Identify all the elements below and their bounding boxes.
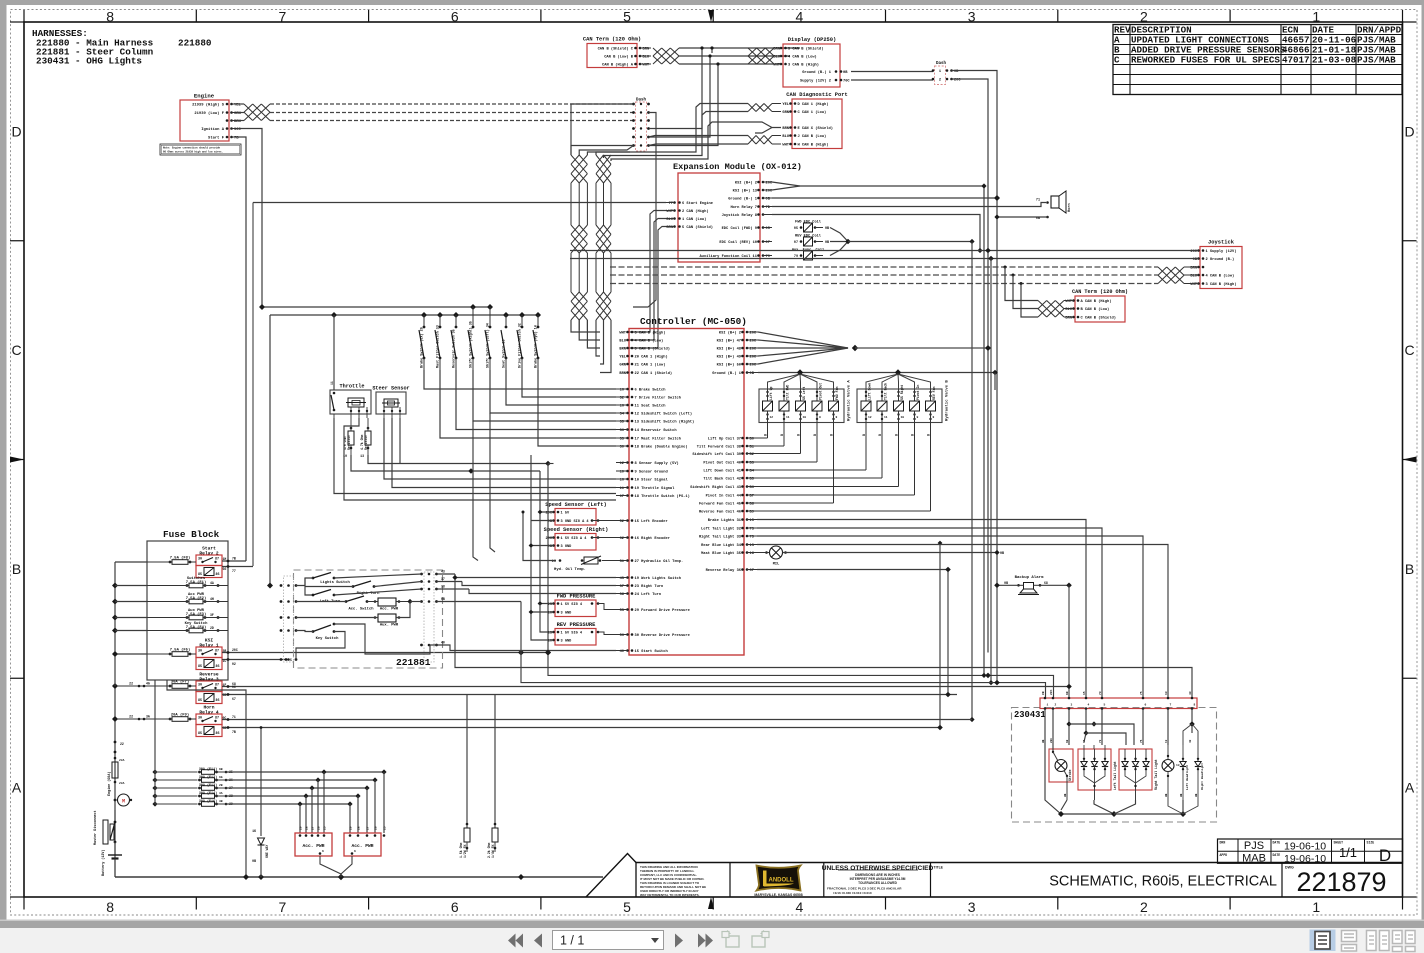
wire horn 0B <box>994 214 1047 219</box>
svg-text:TITLE: TITLE <box>934 866 944 870</box>
svg-text:24 Left Turn: 24 Left Turn <box>635 592 662 597</box>
svg-text:20C: 20C <box>1050 738 1053 743</box>
svg-text:FRACTIONAL 2 DEC PLCS 3 D: FRACTIONAL 2 DEC PLCS 3 DEC PLCS ANGULAR <box>827 887 902 891</box>
svg-text:19 Work Lights Switch: 19 Work Lights Switch <box>635 576 681 581</box>
svg-text:Tilt Back: Tilt Back <box>884 383 888 400</box>
svg-text:FWD PRESSURE: FWD PRESSURE <box>557 594 597 600</box>
svg-text:5: 5 <box>290 658 292 662</box>
wires expansion CAN to bundle <box>628 211 667 349</box>
strobe light <box>1049 745 1073 800</box>
svg-text:BRN: BRN <box>782 127 789 131</box>
svg-text:Right Headlight: Right Headlight <box>1200 763 1204 790</box>
sensor FWD Pressure <box>548 594 616 617</box>
svg-text:26: 26 <box>318 826 321 830</box>
svg-text:Speed Sensor (Right): Speed Sensor (Right) <box>544 527 609 533</box>
svg-text:221881: 221881 <box>396 657 431 668</box>
wire cluster 0B feed <box>521 583 1046 698</box>
left connector strip 221881 <box>280 576 298 662</box>
svg-text:8: 8 <box>933 416 935 419</box>
svg-text:02: 02 <box>232 662 236 666</box>
svg-text:CAN B (High) A: CAN B (High) A <box>602 63 634 68</box>
svg-text:86: 86 <box>216 699 220 703</box>
svg-text:22: 22 <box>129 682 133 686</box>
svg-text:67: 67 <box>232 697 236 701</box>
connector CAN Term 120 Ohm top <box>583 37 651 68</box>
wire display ground to dash <box>851 71 933 73</box>
svg-text:86: 86 <box>216 732 220 736</box>
svg-text:WAY DETRIMENTAL TO OUR INTERES: WAY DETRIMENTAL TO OUR INTERESTS. <box>640 893 700 897</box>
Landoll logo <box>754 866 802 898</box>
svg-text:ONE WAY: ONE WAY <box>265 845 269 858</box>
svg-text:1: 1 <box>1312 9 1320 25</box>
svg-text:87: 87 <box>215 716 219 720</box>
svg-text:1 Supply (12V): 1 Supply (12V) <box>1206 249 1237 254</box>
switch Shift Switch (Left) <box>485 307 616 413</box>
svg-text:Supply (12V) 2: Supply (12V) 2 <box>800 79 831 84</box>
title block legal text <box>640 865 706 897</box>
svg-text:1: 1 <box>1312 899 1320 915</box>
svg-text:4: 4 <box>1088 704 1090 707</box>
fuse 30A (F16) <box>198 799 233 806</box>
svg-text:14 Reservoir Switch: 14 Reservoir Switch <box>635 428 677 433</box>
svg-text:APPD: APPD <box>1220 853 1228 857</box>
svg-text:7 Drive Filter Switch: 7 Drive Filter Switch <box>635 396 681 401</box>
svg-text:2B: 2B <box>219 784 223 787</box>
svg-text:Forward Fan Coil 45: Forward Fan Coil 45 <box>699 502 742 507</box>
ground rail bottom <box>115 874 603 880</box>
svg-text:WHT: WHT <box>782 144 789 148</box>
svg-text:REV Fan: REV Fan <box>932 387 936 400</box>
svg-text:D: D <box>1379 846 1391 865</box>
zone ruler ticks bottom <box>24 897 1403 910</box>
twisted pair CANB diag <box>748 136 781 145</box>
svg-text:KSI (B+) 2: KSI (B+) 2 <box>719 331 741 336</box>
relay Horn Relay 4 <box>196 705 226 737</box>
svg-text:221879: 221879 <box>1296 867 1386 897</box>
wires bottom fuses to acc pwr <box>226 769 387 833</box>
wire controller ground bus to valves <box>758 369 998 390</box>
svg-text:DATE: DATE <box>1273 853 1281 857</box>
svg-text:71: 71 <box>232 715 236 719</box>
Acc PWR inline 1 <box>367 598 422 612</box>
svg-text:B: B <box>813 434 817 436</box>
svg-text:C: C <box>1114 55 1120 66</box>
svg-text:4 CAN B (Low): 4 CAN B (Low) <box>1206 274 1235 279</box>
wire ignition 30C down <box>237 129 262 308</box>
svg-text:Right Tail Light: Right Tail Light <box>1154 759 1158 790</box>
twisted pair display <box>748 48 781 64</box>
svg-text:YEL: YEL <box>619 356 626 360</box>
lamp MIL <box>757 546 1004 567</box>
svg-text:Throttle: Throttle <box>340 384 365 390</box>
svg-text:MARYSVILLE, KANSAS 66508: MARYSVILLE, KANSAS 66508 <box>754 893 802 897</box>
wire engine 60A feed <box>114 741 124 754</box>
svg-text:PJS/MAB: PJS/MAB <box>1357 55 1396 66</box>
svg-text:6: 6 <box>322 850 324 853</box>
engine note box <box>160 144 241 155</box>
wire diag shield Y <box>755 122 781 133</box>
svg-text:Strobe: Strobe <box>1068 769 1072 781</box>
svg-text:10: 10 <box>901 416 905 419</box>
engine CAN twisted pair <box>244 104 270 121</box>
zone ruler ticks top <box>24 10 1403 22</box>
svg-text:7: 7 <box>279 899 287 915</box>
battery 12V <box>101 842 122 877</box>
svg-text:0C: 0C <box>232 685 236 689</box>
svg-text:Brake Lights 31: Brake Lights 31 <box>708 518 742 523</box>
svg-text:26: 26 <box>375 826 378 830</box>
master disconnect <box>93 810 116 845</box>
svg-text:B: B <box>12 561 21 577</box>
svg-text:C CAN B (Shield): C CAN B (Shield) <box>1081 316 1116 321</box>
toolbar prev page button <box>534 934 542 948</box>
svg-text:Engine: Engine <box>194 93 215 100</box>
svg-text:20C: 20C <box>232 648 238 652</box>
wire 7B trunk riser <box>937 541 943 731</box>
svg-text:77: 77 <box>232 569 236 573</box>
svg-text:13: 13 <box>360 454 364 458</box>
wire 0B trunk from joystick ground <box>988 259 993 686</box>
svg-text:Joystick: Joystick <box>1208 240 1235 246</box>
svg-text:0B: 0B <box>843 71 848 75</box>
svg-text:Lift Down Coil 41: Lift Down Coil 41 <box>703 469 741 474</box>
svg-text:Dash: Dash <box>936 61 947 66</box>
coil FWD EDC <box>794 220 829 233</box>
svg-text:Left Tail Light 32: Left Tail Light 32 <box>701 527 741 532</box>
svg-text:Hyd. Oil Temp.: Hyd. Oil Temp. <box>554 567 586 572</box>
svg-text:J CAN B (Low): J CAN B (Low) <box>798 134 827 139</box>
svg-text:5 CAN (Shield): 5 CAN (Shield) <box>682 225 713 230</box>
toolbar next page button <box>675 934 683 948</box>
zone ruler ticks left <box>10 22 24 897</box>
svg-text:68: 68 <box>1066 739 1069 743</box>
svg-text:15 Start Switch: 15 Start Switch <box>635 649 668 654</box>
harness list text <box>32 28 212 67</box>
svg-text:15 Left Encoder: 15 Left Encoder <box>635 519 668 524</box>
twisted pair CAN term right <box>1038 301 1074 318</box>
wire reverse relay 67 <box>757 569 948 571</box>
drawing number block <box>1285 866 1387 898</box>
svg-text:40: 40 <box>441 641 445 645</box>
expansion left pins <box>666 201 714 230</box>
dashed harness box 230431 <box>1012 708 1217 823</box>
switch Seat Switch <box>501 315 616 405</box>
svg-text:Expansion Module (OX-012): Expansion Module (OX-012) <box>673 162 802 172</box>
controller left CAN pins <box>619 331 672 377</box>
connector CAN Term 120 Ohm right <box>1065 289 1128 322</box>
fuse 30A (F13) <box>198 783 233 790</box>
connector Joystick <box>1190 240 1242 289</box>
svg-text:1 5V: 1 5V <box>561 512 570 516</box>
svg-text:19-06-10: 19-06-10 <box>1284 853 1326 865</box>
svg-text:29: 29 <box>350 826 353 830</box>
svg-text:13: 13 <box>1176 764 1180 767</box>
svg-text:Joystick Relay 8: Joystick Relay 8 <box>722 213 758 218</box>
controller left input pins <box>616 388 694 655</box>
wire start engine 77 <box>253 203 666 567</box>
svg-text:C: C <box>11 342 21 358</box>
svg-text:2 Ground (B-): 2 Ground (B-) <box>1206 257 1235 262</box>
dashed harness box 221881 <box>294 570 443 668</box>
svg-text:Acc. Switch: Acc. Switch <box>348 607 374 612</box>
svg-text:87: 87 <box>215 557 219 561</box>
svg-text:Tilt Back Coil 42: Tilt Back Coil 42 <box>703 477 741 482</box>
svg-text:1 CAN (Low): 1 CAN (Low) <box>682 217 706 222</box>
module Expansion OX-012 <box>673 162 802 262</box>
svg-text:Battery (12V): Battery (12V) <box>101 850 106 876</box>
svg-text:8: 8 <box>1194 704 1196 707</box>
svg-text:Display (DP250): Display (DP250) <box>788 37 837 43</box>
svg-text:3B: 3B <box>219 800 223 803</box>
svg-text:7: 7 <box>279 9 287 25</box>
hydraulic valve A <box>757 374 852 503</box>
svg-text:12: 12 <box>770 416 774 419</box>
fuse block inner rail <box>112 586 147 658</box>
svg-text:B: B <box>797 434 801 436</box>
svg-text:68: 68 <box>1066 691 1069 695</box>
svg-text:MAB: MAB <box>1242 853 1266 865</box>
svg-text:10 Steer Signal: 10 Steer Signal <box>635 478 669 483</box>
svg-text:REV PRESSURE: REV PRESSURE <box>557 622 597 628</box>
switch Reservoir Switch <box>451 315 616 430</box>
svg-text:3: 3 <box>968 899 976 915</box>
svg-text:22: 22 <box>120 742 124 746</box>
connector Dash left <box>632 98 650 152</box>
switch Right Turn <box>305 578 422 596</box>
svg-text:230431: 230431 <box>1014 710 1046 720</box>
svg-text:30: 30 <box>198 716 202 720</box>
svg-text:5G: 5G <box>223 567 227 571</box>
svg-text:6 Start Engine: 6 Start Engine <box>682 201 714 206</box>
svg-text:Left Tail Light: Left Tail Light <box>1113 761 1117 790</box>
wires bundle top joins <box>571 146 634 156</box>
svg-text:DWG: DWG <box>1285 866 1294 870</box>
svg-text:Horn Relay 7: Horn Relay 7 <box>730 205 757 210</box>
svg-text:Note: Engine connection should: Note: Engine connection should provide <box>163 147 221 150</box>
svg-text:21939 (Low) F: 21939 (Low) F <box>194 111 224 116</box>
svg-text:3 CAN B (High): 3 CAN B (High) <box>1206 282 1237 287</box>
zone letters left <box>11 123 21 795</box>
resistor 1.5k bottom <box>459 695 470 859</box>
svg-text:H CAN B (High): H CAN B (High) <box>798 143 829 148</box>
svg-text:C: C <box>1404 342 1414 358</box>
svg-text:0B: 0B <box>1180 793 1183 797</box>
svg-text:Ground (B-) 1: Ground (B-) 1 <box>728 197 758 202</box>
fuse F9 <box>115 713 196 722</box>
svg-text:0B: 0B <box>1042 691 1045 695</box>
svg-text:8: 8 <box>836 416 838 419</box>
svg-text:6: 6 <box>354 850 356 853</box>
svg-text:KSI (B+) 2: KSI (B+) 2 <box>735 181 757 186</box>
svg-text:16 Right Encoder: 16 Right Encoder <box>635 536 670 541</box>
svg-text:M: M <box>122 799 125 805</box>
svg-text:UNLESS OTHERWISE SPECIFICIED: UNLESS OTHERWISE SPECIFICIED <box>822 865 934 872</box>
svg-text:3 CAN B (High): 3 CAN B (High) <box>788 63 819 68</box>
svg-text:43: 43 <box>1189 691 1192 695</box>
svg-text:0B: 0B <box>825 227 829 231</box>
svg-text:4: 4 <box>795 899 803 915</box>
toolbar page number field <box>553 931 664 950</box>
svg-text:4 CAN B (Low): 4 CAN B (Low) <box>635 339 664 344</box>
right headlight <box>1192 724 1204 800</box>
wire KSI fan merge <box>758 332 991 364</box>
svg-text:27: 27 <box>367 826 370 830</box>
svg-text:BLU: BLU <box>619 340 626 344</box>
svg-text:Lights Switch: Lights Switch <box>320 580 350 585</box>
svg-text:3A: 3A <box>146 715 150 719</box>
svg-text:Pivot In: Pivot In <box>916 385 920 400</box>
sensor REV Pressure <box>548 622 616 645</box>
svg-text:85: 85 <box>198 699 202 703</box>
title block outline <box>586 854 1403 898</box>
wire cluster 20C feed <box>545 650 1054 698</box>
svg-text:4: 4 <box>795 9 803 25</box>
svg-text:B CAN B (Low): B CAN B (Low) <box>1081 307 1110 312</box>
svg-text:2: 2 <box>1140 899 1148 915</box>
svg-text:A CAN B (High): A CAN B (High) <box>1081 299 1112 304</box>
relay Reverse Relay 3 <box>196 672 226 704</box>
svg-text:25: 25 <box>384 826 387 830</box>
wire dash 20C trunk down <box>952 79 989 653</box>
svg-text:Lift Down: Lift Down <box>868 383 872 400</box>
svg-text:B: B <box>911 434 915 436</box>
svg-text:43: 43 <box>1189 739 1192 743</box>
fuse F5 <box>147 648 196 657</box>
svg-text:0B: 0B <box>1195 793 1198 797</box>
svg-text:6B: 6B <box>219 768 223 771</box>
svg-text:B: B <box>895 434 899 436</box>
svg-text:2D: 2D <box>210 626 214 630</box>
wire sensor 20C tap <box>522 511 557 561</box>
svg-text:SHEET: SHEET <box>1334 841 1344 845</box>
cluster junctions <box>1066 721 1194 745</box>
svg-text:2: 2 <box>939 79 941 83</box>
svg-text:21939 (High) S: 21939 (High) S <box>192 103 225 108</box>
svg-text:Sideshift Right Coil 43: Sideshift Right Coil 43 <box>690 485 742 490</box>
backup alarm speaker <box>1004 575 1048 595</box>
svg-text:Tilt Forward Coil 38: Tilt Forward Coil 38 <box>697 445 742 450</box>
fuse 30A (F11) <box>198 767 233 774</box>
svg-text:BRN: BRN <box>619 348 626 352</box>
steer sensor assembly <box>372 386 409 419</box>
relay KSI Relay 1 <box>196 638 226 670</box>
svg-text:1 / 1: 1 / 1 <box>560 934 584 948</box>
svg-text:27 Hydraulic Oil Temp.: 27 Hydraulic Oil Temp. <box>635 559 684 564</box>
wires 221881 to controller rows <box>437 570 617 653</box>
svg-text:22 CAN 1 (Shield): 22 CAN 1 (Shield) <box>635 371 673 376</box>
svg-text:73: 73 <box>1099 739 1102 743</box>
switch Shift Switch (Right) <box>468 307 616 421</box>
svg-text:C CAN 1 (Low): C CAN 1 (Low) <box>798 110 827 115</box>
svg-text:Sideshift Left Coil 39: Sideshift Left Coil 39 <box>692 452 741 457</box>
svg-text:6: 6 <box>451 9 459 25</box>
wires CAN bus taps to term right <box>1004 266 1039 318</box>
wire engine CAN bus to dash <box>237 104 633 121</box>
svg-text:37: 37 <box>441 577 445 581</box>
svg-text:30: 30 <box>198 683 202 687</box>
svg-text:Hydraulic Valve B: Hydraulic Valve B <box>945 380 950 421</box>
svg-text:23A: 23A <box>119 759 125 762</box>
svg-text:85: 85 <box>198 732 202 736</box>
svg-text:3 GND: 3 GND <box>561 640 573 644</box>
svg-text:71: 71 <box>1036 199 1040 203</box>
svg-text:B: B <box>780 434 784 436</box>
svg-text:4 CAN B (Low): 4 CAN B (Low) <box>788 55 817 60</box>
svg-text:23A: 23A <box>119 782 125 785</box>
svg-text:19-06-10: 19-06-10 <box>1284 841 1326 853</box>
toolbar facing continuous icon <box>1393 931 1416 952</box>
svg-text:Lift Up Coil 37: Lift Up Coil 37 <box>708 437 741 442</box>
connector CAN Diagnostic Port <box>782 92 847 149</box>
svg-text:8: 8 <box>106 9 114 25</box>
wires EDC coils merge right <box>830 228 975 723</box>
fuse block outline <box>147 529 228 680</box>
fuse 7.5A (F4) Key Switch <box>147 621 228 633</box>
svg-text:85: 85 <box>198 665 202 669</box>
twisted bundle down left <box>571 155 587 330</box>
fuse F7 <box>115 680 196 689</box>
svg-text:7: 7 <box>1170 704 1172 707</box>
svg-text:4G: 4G <box>146 682 150 686</box>
svg-text:E CAN X (Shield): E CAN X (Shield) <box>798 126 833 131</box>
svg-text:Rear Blue Light 34: Rear Blue Light 34 <box>701 543 742 548</box>
svg-text:BLU: BLU <box>782 135 789 139</box>
svg-text:GRN: GRN <box>782 111 789 115</box>
svg-text:Dash: Dash <box>636 98 647 103</box>
svg-text:KSI (B+) 49: KSI (B+) 49 <box>717 355 741 360</box>
svg-text:1: 1 <box>1047 704 1049 707</box>
wire reverse relay 67 link <box>945 567 951 698</box>
svg-text:13: 13 <box>1165 691 1168 695</box>
svg-text:8 Sensor Supply (5V): 8 Sensor Supply (5V) <box>635 461 679 466</box>
svg-text:TOLERANCES ALLOWED: TOLERANCES ALLOWED <box>858 881 897 885</box>
connector Acc PWR box 2 <box>341 833 385 874</box>
switch Brake Switch (Hyd) <box>533 315 616 446</box>
toolbar continuous view icon <box>1342 931 1357 952</box>
wire sensor supply rail <box>538 471 554 632</box>
svg-text:9 Sensor Ground: 9 Sensor Ground <box>635 470 668 475</box>
svg-text:A: A <box>12 780 22 796</box>
svg-text:Speed Sensor (Left): Speed Sensor (Left) <box>545 502 606 508</box>
svg-text:Acc. PWR: Acc. PWR <box>380 608 399 612</box>
wire start 7B down <box>237 137 246 561</box>
svg-text:221880: 221880 <box>178 38 212 49</box>
wire CAN taps to dash <box>650 46 720 145</box>
wire expansion ground 0B <box>772 195 1000 201</box>
svg-text:5 CAN B (Shield): 5 CAN B (Shield) <box>788 47 823 52</box>
svg-text:KSI (B+) 13: KSI (B+) 13 <box>733 189 758 194</box>
svg-text:B: B <box>830 434 834 436</box>
svg-text:CAN B (Shield) C: CAN B (Shield) C <box>598 47 634 52</box>
toolbar last page button <box>698 934 713 948</box>
svg-text:Right Tail Light 33: Right Tail Light 33 <box>699 535 742 540</box>
svg-text:Backup Alarm: Backup Alarm <box>1015 575 1044 580</box>
fuse F8 <box>147 556 196 565</box>
toolbar rotate ccw icon <box>722 930 739 947</box>
svg-text:D: D <box>1404 123 1414 139</box>
diode ONE WAY <box>252 726 269 877</box>
toolbar single page view active <box>1310 930 1336 952</box>
svg-text:KSI (B+) 47: KSI (B+) 47 <box>717 339 741 344</box>
hydraulic valve B <box>757 374 950 511</box>
svg-text:Key Switch: Key Switch <box>316 636 340 641</box>
svg-text:86: 86 <box>216 573 220 577</box>
switch column bus 30C <box>259 304 493 310</box>
fuse 7.5A (F2) Acc PWR <box>147 593 228 604</box>
svg-text:B: B <box>764 434 768 436</box>
zone numbers bottom <box>106 899 1320 915</box>
Acc PWR inline 2 <box>296 602 410 628</box>
